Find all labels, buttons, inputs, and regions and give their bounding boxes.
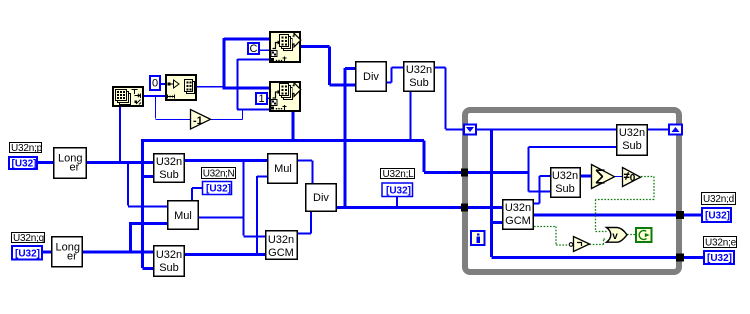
svg-text:U32n: U32n <box>406 64 432 76</box>
subVI U32n Sub left-top <box>154 154 185 183</box>
wire L net (Div2 out to loop tunnel T2) <box>337 206 461 209</box>
loop condition terminal <box>636 228 652 242</box>
label U32n;e <box>704 237 737 249</box>
wire Div1 out to Sub1top <box>387 68 403 83</box>
svg-text:-1: -1 <box>193 115 203 127</box>
wire GCM out d <box>534 214 676 217</box>
subVI Mul 1 <box>168 201 199 230</box>
wire 1 const <box>267 97 269 99</box>
subVI Div 1 <box>356 62 387 92</box>
while-loop structure border <box>465 110 679 272</box>
svg-text:er: er <box>70 162 80 174</box>
svg-text:U32n: U32n <box>156 156 182 168</box>
svg-text:v: v <box>612 231 618 242</box>
function boxes (white) <box>52 62 648 277</box>
svg-text:U32n: U32n <box>156 249 182 261</box>
node2 replace array subset <box>270 82 301 111</box>
wire Sub1top out to shift register <box>435 68 463 130</box>
svg-text:[U32]: [U32] <box>705 211 730 222</box>
wire GCM to Submid upper <box>534 176 550 204</box>
svg-text:[U32]: [U32] <box>206 184 231 195</box>
constant 0 <box>150 76 160 90</box>
svg-text:U32n: U32n <box>268 234 294 246</box>
subVI U32n Sub left-bottom <box>154 246 185 277</box>
wire q branch to Mul1 lower <box>129 223 167 252</box>
wire e outside <box>684 256 703 259</box>
wire p branch to Mul1 upper <box>128 163 167 207</box>
svg-text:U32n: U32n <box>552 170 578 182</box>
svg-text:GCM: GCM <box>268 247 294 259</box>
svg-text:GCM: GCM <box>505 215 531 227</box>
subVI U32n Sub loop-mid <box>551 168 581 198</box>
wire branch to negate <box>156 96 191 120</box>
terminal U32 q <box>12 246 42 260</box>
wire SR value descender <box>492 130 503 257</box>
svg-text:Mul: Mul <box>274 163 292 175</box>
svg-text:[U32]: [U32] <box>386 186 411 197</box>
wire array bus1 <box>141 139 424 142</box>
not-equal-zero triangle <box>623 168 641 187</box>
wire bottom run to tunnel e <box>492 256 677 259</box>
wire shift register out <box>477 129 616 131</box>
subVI Div 2 <box>306 184 337 212</box>
subVI U32n Sub top <box>404 62 435 92</box>
wire sigma to neq0 <box>615 176 622 178</box>
wire SubtopR out to SR up <box>647 129 668 131</box>
wire GCM2 out to Div2 bottom <box>298 212 311 234</box>
svg-text:er: er <box>67 251 77 263</box>
subVI U32n GCM loop <box>503 200 534 230</box>
wire Mul1 out riser <box>244 161 266 237</box>
node1 replace array subset <box>270 32 301 62</box>
svg-text:[U32]: [U32] <box>15 249 40 260</box>
svg-text:Div: Div <box>363 71 379 83</box>
left shift register <box>464 125 476 135</box>
label U32n;d <box>702 193 736 206</box>
svg-text:Div: Div <box>313 192 329 204</box>
wire q net <box>42 251 153 254</box>
wire tunnel T2 to GCM upper <box>468 206 502 209</box>
label U32n;q <box>12 233 45 245</box>
wire tunnel T1 inside <box>468 171 529 174</box>
converter Long-er 2 <box>52 237 83 267</box>
wire L terminal stem <box>396 197 398 206</box>
right shift register <box>669 125 682 135</box>
svg-text:U32n: U32n <box>619 127 645 139</box>
wire node2 bottom pin <box>292 112 295 140</box>
svg-text:C: C <box>250 43 258 55</box>
wire icon A to init array <box>144 95 165 97</box>
icon node A (reshape array) <box>113 87 143 106</box>
svg-text:[U32]: [U32] <box>707 253 732 264</box>
tunnel T1 <box>461 169 468 177</box>
wire riser to node1 upper <box>224 38 269 89</box>
svg-text:0: 0 <box>630 173 636 184</box>
icon node B (initialize array) <box>166 75 196 100</box>
constant 1 <box>256 93 267 105</box>
wire init array out <box>197 86 224 88</box>
svg-text:0: 0 <box>152 78 158 90</box>
wire Submid out to sigma <box>581 175 591 178</box>
wire neq0 out to Or upper <box>596 177 655 232</box>
wire Sub2L out to GCM2 <box>185 253 265 256</box>
iteration terminal i <box>471 231 485 245</box>
label U32n;L <box>381 169 415 181</box>
constant C <box>248 43 259 55</box>
subVI U32n Sub loop-top <box>617 125 648 156</box>
svg-text:Sub: Sub <box>159 262 179 274</box>
svg-text:Sub: Sub <box>159 169 179 181</box>
subVI Mul top <box>268 154 298 184</box>
wire negate out <box>211 110 243 120</box>
wire 0 const <box>160 83 165 85</box>
tunnel T2 <box>461 204 468 212</box>
wire iconA bottom pin <box>119 107 121 161</box>
wire into node2 lower <box>237 109 269 111</box>
tunnel d <box>676 211 684 219</box>
boolean dotted wires <box>534 177 654 246</box>
svg-text:U32n;L: U32n;L <box>383 169 415 180</box>
svg-text:Sub: Sub <box>409 77 429 89</box>
wire bus1 to tunnel T1 <box>424 141 461 173</box>
svg-text:U32n;d: U32n;d <box>703 194 734 205</box>
wire L riser to Div1 upper <box>345 68 355 207</box>
wire Sub1L out to Mul top <box>185 159 268 162</box>
label U32n;N <box>202 168 236 180</box>
svg-text:1: 1 <box>259 93 265 105</box>
label U32n;p <box>10 143 43 155</box>
svg-text:U32n;p: U32n;p <box>11 143 43 154</box>
svg-text:U32n;N: U32n;N <box>203 169 235 180</box>
terminal U32 e <box>704 251 734 264</box>
svg-text:Mul: Mul <box>174 210 192 222</box>
wire p net <box>37 161 54 164</box>
tunnel e <box>676 254 684 262</box>
svg-text:U32n: U32n <box>505 202 531 214</box>
svg-text:Sub: Sub <box>555 183 575 195</box>
wire T1 riser <box>528 147 530 192</box>
svg-text:U32n;q: U32n;q <box>13 233 44 244</box>
wire array to node2 upper <box>223 87 270 90</box>
converter Long-er 1 <box>54 148 87 179</box>
wire Not out to Or lower <box>590 239 607 245</box>
wire node1 out to Div1 <box>301 47 355 86</box>
wire riser to node1 lower <box>238 59 270 110</box>
wire C const <box>259 49 269 51</box>
wire Sub2L riser to Mul top lower <box>257 176 268 254</box>
terminal U32 N <box>203 182 232 195</box>
wire array bus descender <box>143 141 154 269</box>
not gate <box>569 237 589 252</box>
terminal U32 p <box>9 157 37 170</box>
wire GCM boolean out to Not <box>534 227 569 246</box>
wire Mul top out to Div2 top <box>297 161 313 184</box>
wire N terminal stem <box>192 188 202 200</box>
wire d outside <box>684 214 701 217</box>
sigma triangle <box>592 165 615 189</box>
terminal U32 d <box>702 208 731 222</box>
subVI U32n GCM 2 <box>266 231 298 260</box>
negate -1 triangle <box>191 110 211 130</box>
wire Sub1top bottom pin <box>410 92 412 140</box>
svg-text:Sub: Sub <box>622 140 642 152</box>
svg-text:[U32]: [U32] <box>12 159 37 170</box>
wire Or out to loop condition <box>627 234 636 236</box>
or gate <box>607 228 628 243</box>
svg-text:U32n;e: U32n;e <box>705 238 737 249</box>
terminal U32 L <box>382 183 413 197</box>
